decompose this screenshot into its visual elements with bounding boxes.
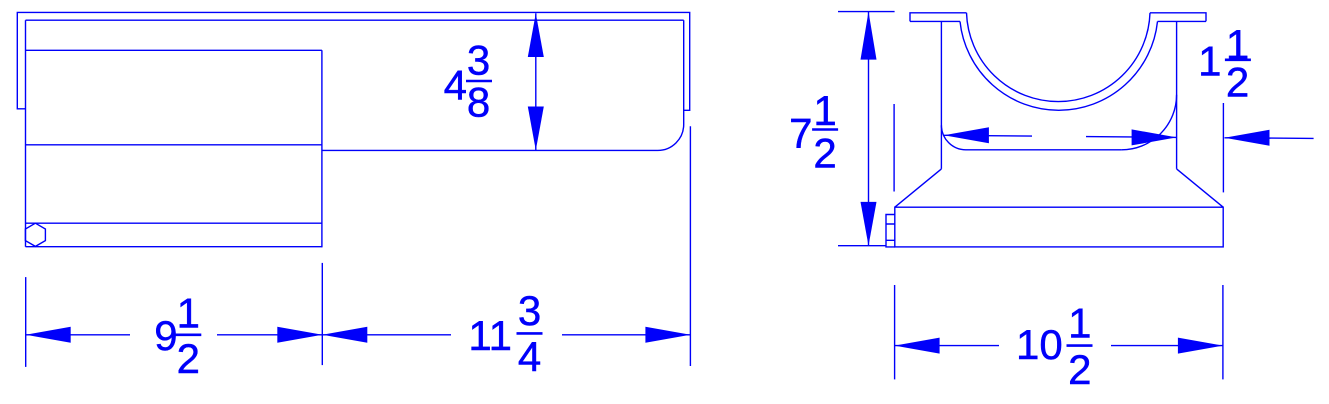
arrow 7 1/2 down — [861, 202, 877, 246]
left view: front block right edge — [321, 50, 323, 247]
arrow 4 3/8 down — [528, 107, 544, 151]
right view: right flange tab — [1150, 13, 1206, 22]
fraction bar 1/2 (7) — [812, 128, 838, 131]
svg-text:3: 3 — [467, 37, 490, 84]
left view: front block top edge — [26, 49, 322, 51]
extension line left view middle — [321, 263, 323, 365]
arrow wall right — [1132, 129, 1177, 145]
right view: cavity floor line — [966, 149, 1122, 151]
dim wall leader line segments — [944, 135, 1314, 138]
extension line wall left — [893, 104, 895, 192]
arrow 4 3/8 up — [528, 13, 544, 57]
extension line left view right — [689, 126, 691, 366]
svg-text:4: 4 — [518, 333, 541, 380]
fraction bar 3/8 — [466, 80, 492, 83]
svg-text:8: 8 — [467, 79, 490, 126]
extension line base left — [894, 285, 896, 379]
dim 10 1/2: horizontal dimension line segments — [895, 345, 1223, 347]
right view: hex bolt side — [886, 215, 895, 247]
svg-text:4: 4 — [444, 62, 467, 109]
extension line base right — [1222, 285, 1224, 379]
right view: left inner wall — [940, 21, 942, 169]
svg-text:1: 1 — [813, 87, 836, 134]
right view: left flange tab — [910, 13, 967, 22]
right view: base rectangle — [895, 207, 1223, 247]
svg-text:2: 2 — [813, 129, 836, 176]
svg-text:1: 1 — [1198, 38, 1221, 85]
left view: body bottom edge — [26, 246, 322, 248]
svg-text:1: 1 — [1068, 300, 1091, 347]
extension line wall right — [1222, 103, 1224, 192]
extension line left view left — [25, 277, 27, 367]
svg-text:2: 2 — [1226, 59, 1249, 106]
right view: right floor fillet — [1122, 95, 1177, 150]
fraction bar 1/2 (10) — [1067, 344, 1093, 347]
left view: outer lip of back flange — [17, 12, 689, 110]
fraction bar 3/4 — [517, 332, 543, 335]
arrow wall left — [944, 127, 989, 143]
arrow 11 3/4 right — [645, 327, 690, 343]
extension line right view bottom — [838, 245, 886, 247]
svg-text:7: 7 — [789, 110, 812, 157]
arrow 10 1/2 right — [1178, 338, 1223, 354]
svg-text:9: 9 — [154, 312, 177, 359]
arrow thickness left — [1225, 130, 1270, 146]
dim 7 1/2: vertical dimension line — [868, 12, 870, 246]
right view: left outer slope — [895, 169, 942, 207]
svg-text:2: 2 — [1068, 346, 1091, 393]
arrow 11 3/4 left — [322, 327, 367, 343]
arrow 9 1/2 right — [277, 327, 322, 343]
left view: horizontal line lower — [26, 222, 322, 224]
arrow 10 1/2 left — [895, 338, 940, 354]
arrow 9 1/2 left — [26, 327, 71, 343]
dim 9 1/2 and 11 3/4: horizontal dimension line segments — [26, 334, 691, 336]
right view: bore outer arc — [960, 21, 1158, 110]
arrow 7 1/2 up — [861, 12, 877, 60]
dim 4 3/8: vertical dimension line — [535, 13, 537, 150]
right view: right inner wall — [1176, 21, 1178, 169]
right view: right outer slope — [1177, 169, 1224, 207]
svg-text:3: 3 — [518, 287, 541, 334]
svg-text:10: 10 — [1016, 321, 1063, 368]
fraction bar 1/2 (9) — [175, 333, 201, 336]
svg-text:2: 2 — [177, 335, 200, 382]
left view: body left edge — [25, 20, 27, 247]
svg-text:11: 11 — [468, 312, 512, 359]
left view: body top edge — [26, 19, 684, 21]
extension line right view top — [838, 11, 895, 13]
fraction bar 1/2 (1) — [1225, 58, 1251, 61]
right view: bore inner arc — [967, 13, 1151, 102]
left view: body right edge with fillet and arm bottom — [322, 20, 684, 150]
right view: left floor fillet — [941, 125, 966, 150]
svg-text:1: 1 — [177, 290, 200, 337]
left view: horizontal line mid — [26, 144, 322, 146]
left view: hex bolt head — [25, 223, 45, 246]
